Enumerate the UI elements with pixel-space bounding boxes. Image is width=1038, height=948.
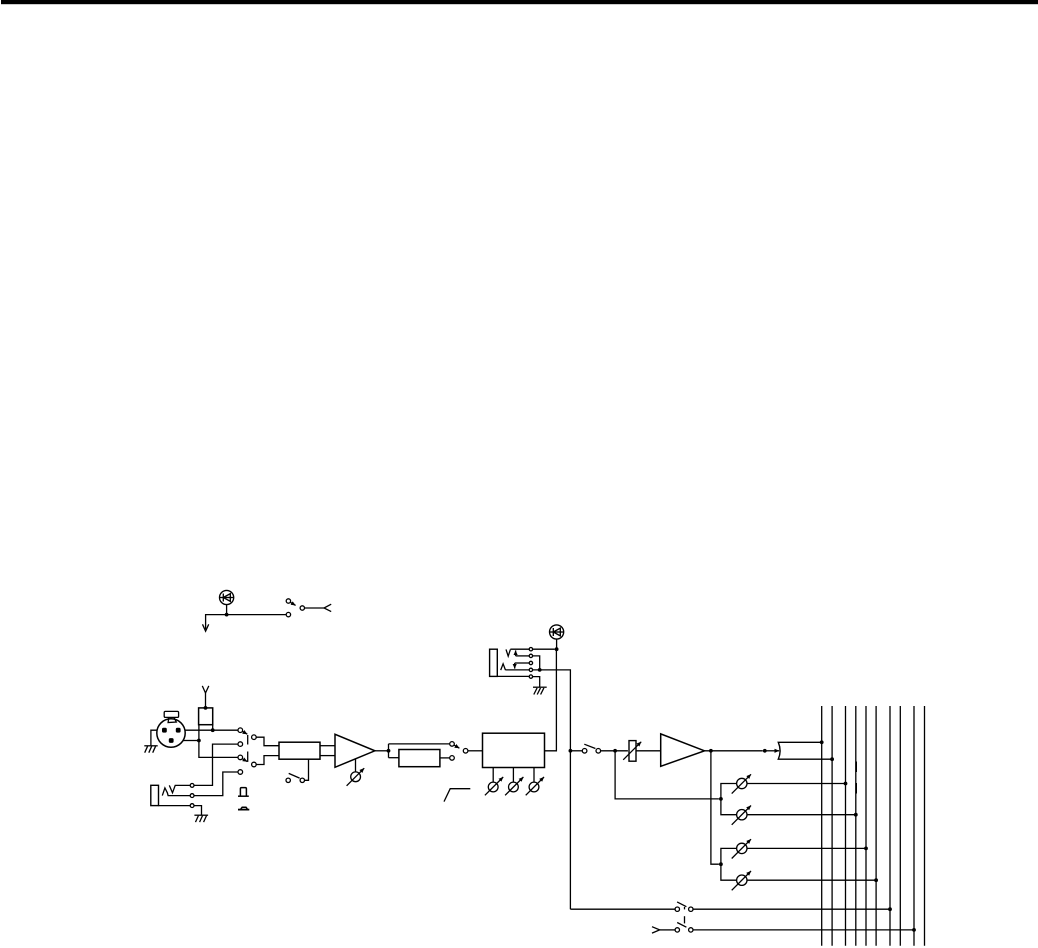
resistor R1 phantom feed (199, 708, 213, 725)
J2 sleeve terminal (190, 804, 194, 808)
junction dot aux2 bus 4 (854, 813, 858, 817)
junction dot pin2 net (211, 728, 215, 732)
wire EQ output to insert send (545, 649, 557, 751)
aux send pot VR8 (732, 839, 751, 858)
wire resistor to pin2 net (212, 725, 214, 731)
wire EQ control tap 3 (533, 768, 535, 783)
bus line 7 (889, 706, 891, 946)
EQ potentiometer VR2 (485, 777, 503, 795)
gain potentiometer VR1 (347, 768, 365, 786)
wire splitter vertical (388, 744, 390, 758)
mute switch SW5 lever (584, 744, 595, 748)
chassis ground G3 (533, 687, 547, 694)
top border frame bar (1, 0, 1038, 4)
SW2 wiper A (252, 735, 257, 740)
routing switch SW6 contact left (675, 907, 679, 911)
junction dot bus 9 (912, 928, 916, 932)
J3 terminal 3 (529, 661, 532, 664)
switch SW3 lever (289, 773, 300, 778)
J3 terminal 1 (529, 648, 532, 651)
J3 terminal 2 (529, 654, 532, 657)
junction dot pre fader (763, 749, 767, 753)
phantom feed arrow into resistor (202, 686, 209, 693)
junction dot pre-fader aux tap (613, 749, 617, 753)
switch SW3 contact left (286, 778, 290, 782)
wire SW1 to supply (305, 607, 325, 609)
bus line 4 (855, 706, 857, 946)
junction dot fader to bus 1 (820, 740, 824, 744)
wire J3 tip (510, 648, 554, 650)
J3 terminal 5 (529, 675, 532, 678)
routing switch SW7 contact left (675, 928, 679, 932)
wire J3 sleeve to chassis (533, 677, 540, 688)
wire J2 tip to switch contact (194, 744, 238, 785)
wire source to SW7 (660, 929, 675, 931)
XLR pin 1 (176, 728, 181, 733)
junction dot pin3 (197, 739, 201, 743)
chassis ground G1 (144, 746, 157, 753)
wire pre-fader aux feed (615, 751, 719, 799)
line amplifier A2 (661, 734, 705, 766)
wire aux 4 to bus (747, 879, 876, 881)
pushbutton actuator icon (238, 788, 249, 797)
junction dot A1 output (387, 749, 391, 753)
J2 ring contact spring (162, 788, 190, 796)
supply source fork symbol (324, 604, 331, 611)
junction dot fader to bus 2 (830, 757, 834, 761)
mic/line switch SW2 contact mic cold (238, 755, 243, 760)
mute switch SW5 contact left (582, 749, 587, 754)
wire U2 output (440, 757, 450, 759)
chassis ground G2 (194, 815, 208, 822)
wire J2 ring to switch contact (194, 772, 238, 796)
wire J3 sleeve (497, 675, 529, 677)
HPF response curve icon (444, 789, 470, 802)
aux send pot VR6 (732, 774, 751, 793)
EQ potentiometer VR4 (526, 777, 544, 795)
wire insert return to routing switch (570, 908, 675, 910)
wire SW2 wiper B to gain block (256, 756, 279, 765)
variable attenuator VR5 (623, 741, 641, 762)
wire XLR pin3 (183, 740, 199, 742)
aux send pot VR9 (732, 871, 751, 890)
wire return to mute switch (570, 750, 582, 752)
routing switch SW6 contact right (689, 907, 693, 911)
bus line 8 (899, 706, 901, 946)
aux send pot VR7 (732, 806, 751, 825)
junction dot bus 7 (888, 907, 892, 911)
J3 ring contact spring (501, 664, 506, 670)
preamp amplifier A1 (335, 734, 375, 767)
J2 tip terminal (190, 784, 194, 788)
wire U1 tap to switch SW3 (305, 759, 309, 780)
wire post-amp to lower aux pair (711, 751, 719, 864)
wire J3 ring to return line (506, 670, 571, 909)
wire phantom feed (205, 693, 207, 708)
wire J3 send contact to ring net (533, 656, 540, 670)
SW6 SW7 gang link (684, 907, 686, 924)
switch SW4 contact direct (450, 742, 455, 747)
SW2 pole B position arrow (242, 759, 247, 762)
EQ potentiometer VR3 (505, 777, 523, 795)
arrow into fader (767, 750, 780, 752)
switch SW3 contact right (300, 778, 304, 782)
wire XLR pin2 to switch contact (185, 729, 238, 731)
SW2 pole A position arrow (242, 731, 247, 734)
wire A2 output (705, 750, 763, 752)
junction dot aux1 bus 3 (844, 782, 848, 786)
wire SW7 to bus 9 (693, 929, 914, 931)
wire XLR shell to chassis (151, 730, 157, 745)
wire U1 to preamp (cold) (320, 755, 335, 757)
SW4 position arrow (454, 745, 459, 748)
wire direct path to SW4 (389, 743, 450, 745)
switch SW4 contact filtered (450, 756, 455, 761)
line input jack J2 body (151, 785, 159, 805)
XLR pin 2 (162, 728, 167, 733)
junction dot post amp (709, 749, 713, 753)
EQ block U3 (483, 733, 545, 767)
switch SW1 position arrow (290, 602, 295, 605)
wire LED D2 down (556, 639, 558, 649)
wire SW2 wiper A to gain block (256, 737, 279, 746)
junction dot aux3 bus 5 (864, 847, 868, 851)
wire phantom rail (206, 615, 287, 630)
insert jack J3 body (490, 649, 498, 676)
XLR pin 3 (169, 738, 174, 743)
routing switch SW6 lever (677, 902, 686, 907)
bus line 10 (924, 706, 926, 946)
J3 normal up arrow (515, 650, 517, 656)
wire EQ control tap 2 (512, 768, 514, 783)
wire SW6 to bus 7 (693, 908, 890, 910)
junction dot phantom rail (225, 613, 229, 617)
pushbutton cap icon (238, 807, 249, 809)
XLR connector J1 shell (157, 719, 185, 747)
bus line 2 (831, 706, 833, 946)
mic/line switch SW2 contact line ring (238, 770, 243, 775)
routing switch SW7 lever (677, 923, 686, 928)
switch SW1 phantom contact (rail side) (286, 612, 290, 616)
high-pass filter block U2 (399, 750, 440, 767)
wire J3 normal return (515, 662, 530, 664)
junction dot aux pair A feed (719, 797, 723, 801)
wire SW4 to EQ block (468, 750, 483, 752)
junction dot insert send (555, 647, 559, 651)
J2 tip contact spring (169, 785, 190, 792)
J3 terminal 4 (529, 668, 532, 671)
wire LED D1 to phantom rail (226, 605, 228, 615)
wire aux pair A verticals (721, 784, 737, 815)
mic/line switch SW2 contact mic hot (238, 728, 243, 733)
external source arrow (652, 927, 660, 933)
wire A1 gain tap (355, 759, 357, 772)
wire through attenuator (636, 750, 661, 752)
wire aux 1 to bus (747, 783, 846, 785)
junction dot aux pair B feed (719, 862, 723, 866)
routing switch SW7 contact right (689, 928, 693, 932)
J3 normal down arrow (514, 663, 516, 669)
bus line 4 dashed gang mark (855, 762, 857, 795)
wire aux 3 to bus (747, 847, 866, 849)
bus line 3 (845, 706, 847, 946)
bus line 1 (821, 706, 823, 946)
SW2 wiper B (252, 762, 257, 767)
SW2 gang link dashed (247, 735, 249, 762)
wire J3 normal send (516, 655, 530, 657)
LED D2 insert indicator (550, 625, 564, 639)
J3 tip contact spring (506, 649, 510, 656)
bus line 9 (913, 706, 915, 946)
wire U1 to preamp (hot) (320, 745, 335, 747)
wire resistor to pin3 net (199, 725, 238, 758)
wire A1 output (375, 750, 389, 752)
mic/line switch SW2 contact line tip (238, 742, 243, 747)
junction dot aux4 bus 6 (874, 878, 878, 882)
switch SW1 wiper (300, 606, 304, 610)
wire aux 2 to bus (747, 814, 856, 816)
channel fader F1 (778, 742, 832, 759)
wire EQ control tap 1 (492, 768, 494, 783)
wire J2 sleeve (159, 805, 191, 807)
SW4 wiper (463, 749, 468, 754)
wire aux pair B verticals (721, 848, 737, 880)
LED D1 phantom indicator (220, 590, 234, 604)
J2 ring terminal (190, 794, 194, 798)
junction dot insert return (569, 749, 573, 753)
arrow to +48V distribution (203, 624, 209, 631)
mute switch SW5 contact right (596, 749, 601, 754)
junction dot on resistor top (204, 706, 208, 710)
XLR latch tab (164, 711, 178, 722)
wire SW5 to fader section (601, 750, 628, 752)
bus line 6 (875, 706, 877, 946)
input pad block U1 (279, 742, 320, 759)
bus line 5 (865, 706, 867, 946)
switch SW1 phantom contact (upper) (286, 599, 290, 603)
wire into HPF block (389, 757, 399, 759)
wire J2 sleeve to chassis (194, 806, 202, 815)
junction dot J3 ring net (538, 668, 542, 672)
